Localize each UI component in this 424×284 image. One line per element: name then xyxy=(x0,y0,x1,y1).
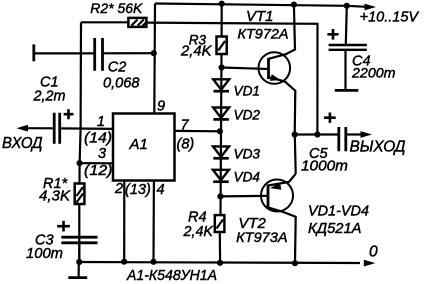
svg-text:1: 1 xyxy=(97,114,105,130)
svg-text:VD4: VD4 xyxy=(234,170,261,185)
svg-text:(13): (13) xyxy=(125,182,151,198)
svg-text:7: 7 xyxy=(181,118,190,134)
svg-text:КТ972А: КТ972А xyxy=(238,26,289,42)
svg-text:VD2: VD2 xyxy=(234,108,261,123)
svg-text:4,3K: 4,3K xyxy=(39,189,71,205)
svg-text:3: 3 xyxy=(98,146,106,162)
svg-text:100m: 100m xyxy=(26,246,63,262)
svg-text:VT1: VT1 xyxy=(246,8,274,25)
svg-text:2200m: 2200m xyxy=(351,65,396,81)
svg-text:(12): (12) xyxy=(84,163,113,179)
svg-text:(14): (14) xyxy=(84,131,112,147)
svg-text:4: 4 xyxy=(157,182,165,198)
svg-text:2,4K: 2,4K xyxy=(183,224,215,240)
svg-text:0,068: 0,068 xyxy=(103,76,140,92)
svg-text:9: 9 xyxy=(157,99,165,115)
svg-text:1000m: 1000m xyxy=(301,158,348,175)
svg-text:КД521А: КД521А xyxy=(308,221,362,237)
svg-text:КТ973А: КТ973А xyxy=(236,229,288,245)
svg-text:A1: A1 xyxy=(129,136,148,153)
svg-text:2: 2 xyxy=(114,181,123,197)
svg-text:А1-К548УН1А: А1-К548УН1А xyxy=(126,267,217,284)
svg-text:0: 0 xyxy=(369,244,378,261)
svg-text:VD3: VD3 xyxy=(234,147,261,162)
svg-text:(8): (8) xyxy=(177,137,195,153)
svg-text:R2* 56K: R2* 56K xyxy=(90,0,143,16)
svg-text:VD1-VD4: VD1-VD4 xyxy=(308,204,369,220)
svg-text:ВХОД: ВХОД xyxy=(2,135,43,152)
svg-text:2,2m: 2,2m xyxy=(33,88,66,105)
svg-text:VD1: VD1 xyxy=(234,83,261,98)
svg-text:C2: C2 xyxy=(108,60,127,76)
svg-text:+10..15V: +10..15V xyxy=(360,9,420,26)
svg-text:2,4K: 2,4K xyxy=(180,44,213,60)
svg-text:ВЫХОД: ВЫХОД xyxy=(350,139,406,156)
